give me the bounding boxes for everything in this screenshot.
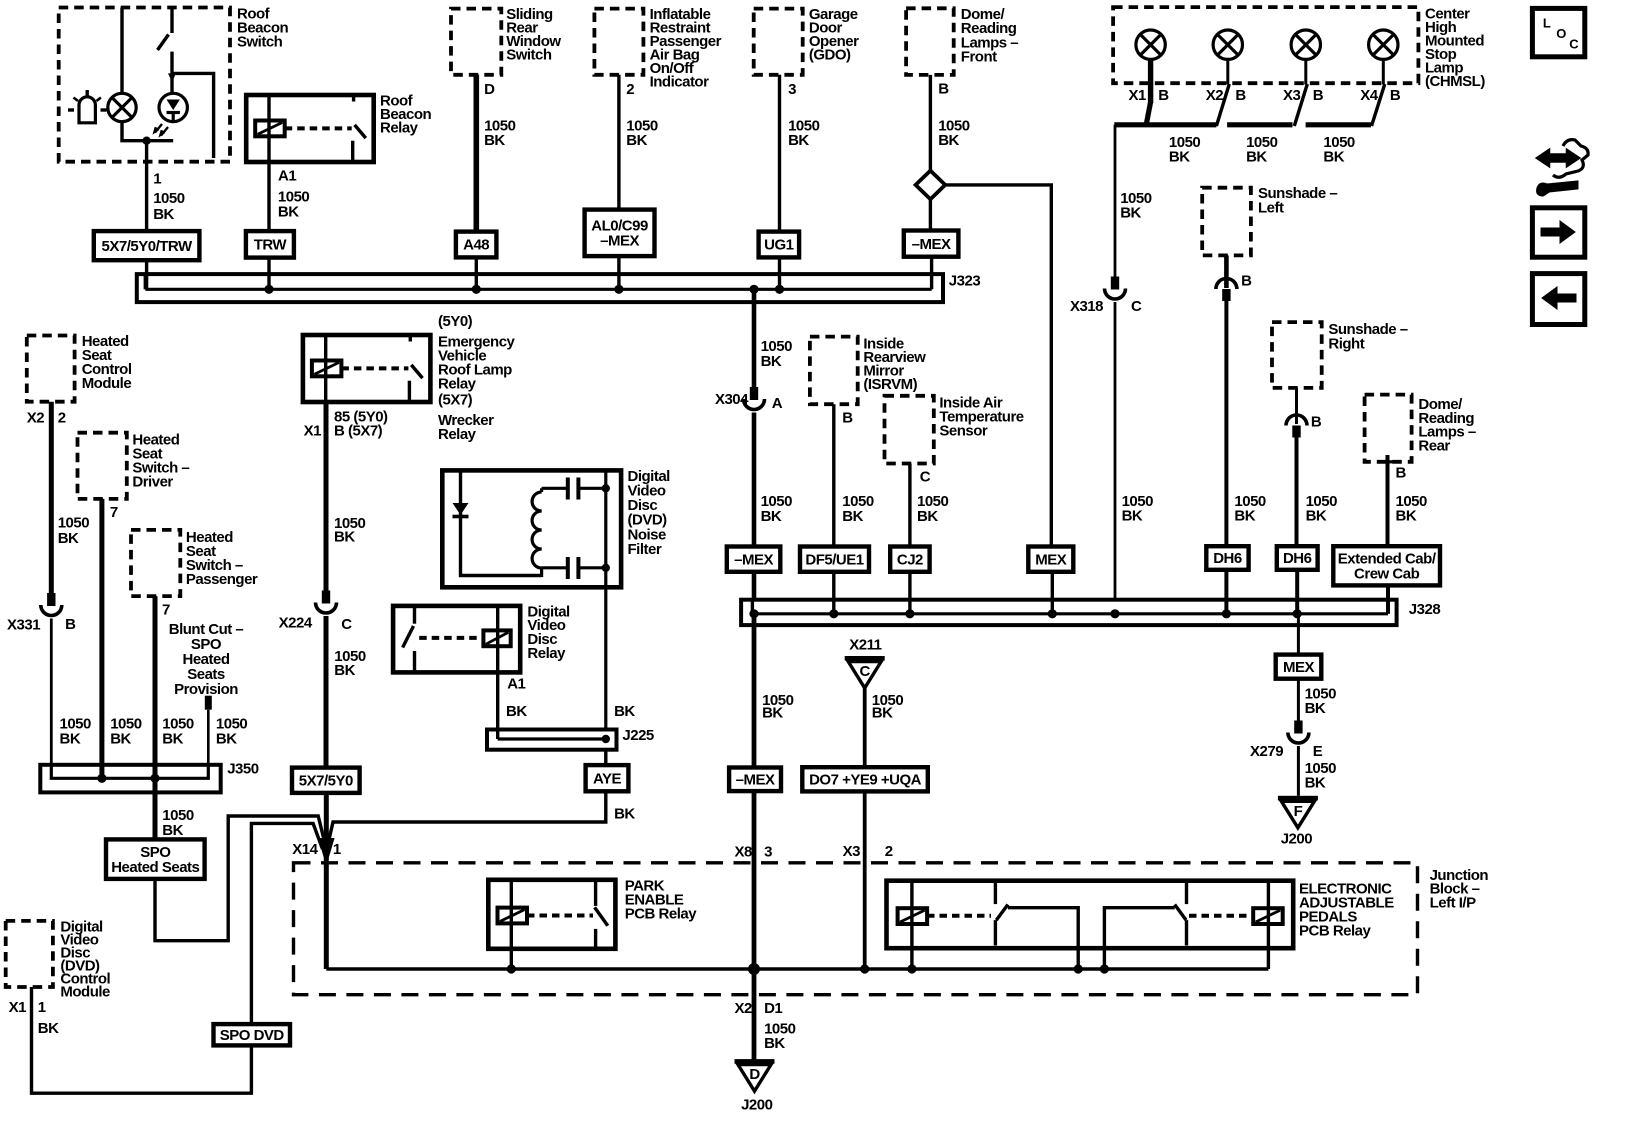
svg-text:B: B <box>1390 87 1401 104</box>
svg-text:DH6: DH6 <box>1213 550 1242 567</box>
svg-text:X224: X224 <box>279 614 313 631</box>
svg-text:C: C <box>1569 37 1579 52</box>
svg-text:L: L <box>1543 16 1551 31</box>
svg-text:BK: BK <box>1305 700 1326 717</box>
svg-text:BK: BK <box>60 730 81 747</box>
svg-text:Crew Cab: Crew Cab <box>1354 566 1420 583</box>
svg-text:UG1: UG1 <box>764 237 794 254</box>
svg-text:Right: Right <box>1328 336 1364 353</box>
svg-text:B: B <box>1241 273 1252 290</box>
svg-text:J323: J323 <box>949 272 981 289</box>
svg-text:BK: BK <box>1246 149 1267 166</box>
svg-text:SPO DVD: SPO DVD <box>220 1027 285 1044</box>
svg-text:A1: A1 <box>507 676 525 693</box>
svg-text:Module: Module <box>60 983 110 1000</box>
svg-text:C: C <box>860 663 871 680</box>
svg-text:1050: 1050 <box>153 190 185 207</box>
svg-text:B: B <box>1235 87 1246 104</box>
svg-text:Provision: Provision <box>174 681 238 698</box>
svg-text:Module: Module <box>82 375 132 392</box>
svg-text:(5X7): (5X7) <box>438 392 473 409</box>
svg-text:2: 2 <box>885 843 893 860</box>
svg-text:J225: J225 <box>622 727 654 744</box>
svg-text:BK: BK <box>58 530 79 547</box>
svg-text:X279: X279 <box>1250 743 1283 760</box>
svg-text:CJ2: CJ2 <box>897 551 923 568</box>
svg-text:5X7/5Y0/TRW: 5X7/5Y0/TRW <box>102 238 193 255</box>
svg-text:BK: BK <box>872 705 893 722</box>
svg-text:B: B <box>1311 414 1322 431</box>
svg-text:AYE: AYE <box>593 770 621 787</box>
svg-text:BK: BK <box>506 703 527 720</box>
svg-text:D: D <box>749 1066 760 1083</box>
svg-text:X1: X1 <box>304 422 322 439</box>
svg-text:BK: BK <box>762 705 783 722</box>
svg-text:BK: BK <box>938 132 959 149</box>
svg-text:Relay: Relay <box>438 375 477 392</box>
svg-text:Heated Seats: Heated Seats <box>111 859 199 876</box>
svg-text:X331: X331 <box>7 617 40 634</box>
svg-text:(CHMSL): (CHMSL) <box>1425 73 1485 90</box>
svg-text:BK: BK <box>1306 507 1327 524</box>
svg-text:B: B <box>938 81 949 98</box>
svg-text:DH6: DH6 <box>1283 550 1312 567</box>
svg-text:D1: D1 <box>764 1000 782 1017</box>
svg-text:DO7 +YE9 +UQA: DO7 +YE9 +UQA <box>809 772 922 789</box>
svg-text:Filter: Filter <box>628 541 662 558</box>
svg-text:C: C <box>341 616 352 633</box>
svg-text:Front: Front <box>961 49 997 66</box>
svg-text:X1: X1 <box>9 999 27 1016</box>
svg-text:(ISRVM): (ISRVM) <box>863 376 917 393</box>
svg-text:BK: BK <box>1234 507 1255 524</box>
svg-text:BK: BK <box>626 132 647 149</box>
svg-text:BK: BK <box>38 1020 59 1037</box>
svg-text:BK: BK <box>788 132 809 149</box>
svg-text:3: 3 <box>764 843 772 860</box>
svg-text:1: 1 <box>38 999 46 1016</box>
svg-text:BK: BK <box>1396 507 1417 524</box>
svg-text:MEX: MEX <box>1035 551 1067 568</box>
svg-text:J328: J328 <box>1409 601 1441 618</box>
svg-text:E: E <box>1313 743 1323 760</box>
svg-text:Sensor: Sensor <box>939 423 988 440</box>
svg-text:X3: X3 <box>843 843 861 860</box>
svg-text:3: 3 <box>788 81 796 98</box>
svg-text:X8: X8 <box>734 843 752 860</box>
svg-text:J200: J200 <box>1281 831 1313 848</box>
svg-text:DF5/UE1: DF5/UE1 <box>805 551 863 568</box>
svg-text:BK: BK <box>1122 507 1143 524</box>
svg-text:X3: X3 <box>1283 87 1301 104</box>
svg-text:BK: BK <box>1169 149 1190 166</box>
svg-text:J200: J200 <box>741 1096 773 1113</box>
svg-text:BK: BK <box>1120 205 1141 222</box>
svg-text:BK: BK <box>614 703 635 720</box>
svg-text:BK: BK <box>764 1035 785 1052</box>
svg-text:Rear: Rear <box>1418 438 1450 455</box>
svg-text:BK: BK <box>842 508 863 525</box>
svg-text:X211: X211 <box>849 637 881 654</box>
svg-text:Passenger: Passenger <box>186 571 258 588</box>
svg-text:–MEX: –MEX <box>734 551 773 568</box>
svg-text:BK: BK <box>110 730 131 747</box>
svg-text:BK: BK <box>162 730 183 747</box>
svg-text:–MEX: –MEX <box>600 233 639 250</box>
svg-text:7: 7 <box>162 601 170 618</box>
svg-text:B: B <box>1158 87 1169 104</box>
svg-text:BK: BK <box>1305 774 1326 791</box>
svg-text:B: B <box>1313 87 1324 104</box>
svg-text:BK: BK <box>153 206 174 223</box>
svg-text:D: D <box>484 81 495 98</box>
svg-text:Driver: Driver <box>132 474 173 491</box>
svg-text:B: B <box>65 616 76 633</box>
svg-text:X2: X2 <box>1206 87 1224 104</box>
svg-text:BK: BK <box>334 529 355 546</box>
svg-text:BK: BK <box>484 132 505 149</box>
svg-text:B (5X7): B (5X7) <box>334 422 383 439</box>
svg-text:BK: BK <box>162 822 183 839</box>
svg-text:BK: BK <box>614 805 635 822</box>
svg-text:F: F <box>1294 803 1303 820</box>
svg-text:X14: X14 <box>292 841 318 858</box>
svg-text:7: 7 <box>110 504 118 521</box>
svg-text:1: 1 <box>153 170 161 187</box>
svg-text:–MEX: –MEX <box>912 236 951 253</box>
svg-text:Switch: Switch <box>506 46 552 63</box>
svg-text:B: B <box>842 410 853 427</box>
svg-text:Indicator: Indicator <box>650 73 710 90</box>
svg-text:X318: X318 <box>1070 298 1103 315</box>
svg-text:B: B <box>1396 465 1407 482</box>
svg-text:Relay: Relay <box>380 119 419 136</box>
svg-text:A: A <box>772 395 783 412</box>
svg-text:BK: BK <box>761 353 782 370</box>
svg-text:BK: BK <box>216 730 237 747</box>
svg-text:5X7/5Y0: 5X7/5Y0 <box>299 772 353 789</box>
svg-text:(5Y0): (5Y0) <box>438 313 473 330</box>
svg-text:1: 1 <box>333 841 341 858</box>
svg-text:TRW: TRW <box>254 237 288 254</box>
svg-text:X4: X4 <box>1360 87 1379 104</box>
svg-text:X1: X1 <box>1129 87 1147 104</box>
svg-text:BK: BK <box>278 203 299 220</box>
svg-text:BK: BK <box>917 508 938 525</box>
svg-text:BK: BK <box>334 662 355 679</box>
svg-text:(GDO): (GDO) <box>809 46 851 63</box>
svg-text:PCB Relay: PCB Relay <box>625 905 698 922</box>
svg-text:X2: X2 <box>734 1000 752 1017</box>
svg-text:Left I/P: Left I/P <box>1430 895 1476 912</box>
svg-text:2: 2 <box>626 81 634 98</box>
svg-text:Left: Left <box>1258 200 1284 217</box>
svg-text:C: C <box>920 469 931 486</box>
svg-text:O: O <box>1556 26 1566 41</box>
svg-text:2: 2 <box>58 410 66 427</box>
svg-text:–MEX: –MEX <box>736 772 775 789</box>
svg-text:MEX: MEX <box>1283 659 1315 676</box>
svg-text:PCB Relay: PCB Relay <box>1299 923 1372 940</box>
svg-text:X2: X2 <box>27 410 45 427</box>
svg-text:J350: J350 <box>227 761 259 778</box>
svg-text:A48: A48 <box>463 237 489 254</box>
svg-text:X304: X304 <box>715 391 749 408</box>
svg-text:BK: BK <box>761 508 782 525</box>
svg-text:C: C <box>1131 298 1142 315</box>
svg-text:BK: BK <box>1323 149 1344 166</box>
svg-text:Relay: Relay <box>438 426 477 443</box>
svg-text:Relay: Relay <box>527 645 566 662</box>
svg-text:A1: A1 <box>278 168 296 185</box>
svg-text:Switch: Switch <box>237 33 283 50</box>
